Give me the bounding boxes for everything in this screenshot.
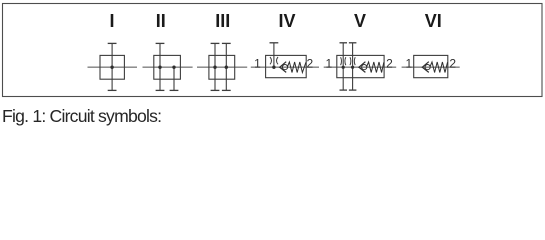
spring V (367, 62, 384, 73)
wire: vertical line II left (top T to bottom T) (159, 43, 161, 90)
valve body rect IV (266, 55, 307, 77)
wire: main horizontal line I (88, 66, 138, 68)
node dot II left (158, 66, 161, 69)
plugged port T-bar top IV (270, 42, 279, 44)
orifice arcs V left (341, 57, 346, 65)
wire: vertical pilot line I (111, 43, 113, 90)
node dot III right (225, 66, 228, 69)
valve body square III (209, 55, 235, 79)
node dot V right (351, 66, 354, 69)
wire: vertical pilot line V right (352, 43, 354, 90)
plugged port T-bar top-left III (211, 42, 220, 44)
orifice arcs V right (350, 57, 355, 65)
wire: main horizontal line V (324, 66, 397, 68)
svg-text:V: V (354, 11, 366, 31)
plugged port T-bar top-right III (222, 42, 231, 44)
svg-text:2: 2 (306, 56, 313, 70)
node dot II right (172, 66, 175, 69)
plugged port T-bar top II (156, 42, 165, 44)
svg-text:Fig. 1: Circuit symbols:: Fig. 1: Circuit symbols: (2, 106, 161, 126)
node dot III left (213, 66, 216, 69)
plugged port T-bar bottom-left V (340, 89, 348, 91)
check valve seat IV (280, 62, 287, 73)
wire: vertical line III left (214, 43, 216, 90)
svg-text:I: I (109, 11, 114, 31)
plugged port T-bar bottom-left III (211, 89, 220, 91)
wire: main horizontal line II (143, 66, 193, 68)
valve body square II (154, 55, 181, 79)
wire: vertical pilot line V left (342, 43, 344, 90)
node dot I (110, 66, 113, 69)
wire: vertical pilot line IV (273, 43, 275, 67)
plugged port T-bar bottom-right II (170, 89, 179, 91)
orifice arcs IV (270, 57, 278, 64)
svg-text:III: III (215, 11, 230, 31)
valve body rect V (337, 55, 384, 77)
svg-text:IV: IV (278, 11, 295, 31)
wire: vertical line II right (node to bottom T) (173, 67, 175, 90)
svg-text:1: 1 (325, 56, 332, 70)
plugged port T-bar top-right V (349, 42, 357, 44)
wire: main horizontal line III (197, 66, 247, 68)
svg-text:2: 2 (449, 56, 456, 70)
check valve ball VI (425, 65, 430, 70)
plugged port T-bar bottom I (108, 89, 117, 91)
spring VI (430, 62, 447, 73)
svg-text:2: 2 (386, 56, 393, 70)
wire: vertical line III right (225, 43, 227, 90)
check valve seat V (359, 62, 366, 73)
plugged port T-bar bottom-right V (349, 89, 357, 91)
node dot IV (272, 66, 275, 69)
check valve ball V (362, 65, 367, 70)
check valve ball IV (282, 65, 287, 70)
svg-text:1: 1 (254, 56, 261, 70)
figure border frame (3, 4, 543, 97)
plugged port T-bar top I (108, 42, 117, 44)
wire: main horizontal line IV (251, 66, 319, 68)
node dot V left (342, 66, 345, 69)
plugged port T-bar bottom-right III (222, 89, 231, 91)
plugged port T-bar top-left V (340, 42, 348, 44)
svg-text:II: II (156, 11, 166, 31)
valve body rect VI (414, 55, 448, 77)
svg-text:1: 1 (406, 56, 413, 70)
valve body square I (100, 55, 124, 79)
plugged port T-bar bottom-left II (156, 89, 165, 91)
svg-text:VI: VI (425, 11, 442, 31)
wire: main horizontal line VI (402, 66, 460, 68)
spring IV (288, 62, 306, 73)
check valve seat VI (422, 62, 429, 73)
